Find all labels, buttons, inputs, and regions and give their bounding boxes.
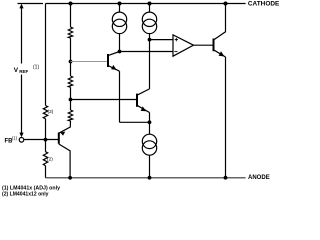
- current source I2 circles: [142, 12, 156, 34]
- node A junction (Q1 base tap): [69, 60, 73, 64]
- node junction Q3 collector / cathode rail: [224, 2, 228, 6]
- node B junction (Q2 base tap): [69, 98, 73, 102]
- node junction Q3 emitter / anode rail: [224, 176, 228, 180]
- wire node E to I3: [149, 122, 151, 134]
- VREF dimension arrowhead up: [19, 4, 23, 9]
- resistor R2: [68, 76, 72, 87]
- op-amp U1 triangle: [173, 35, 194, 56]
- node C junction (Q1 collector / inverting input): [118, 50, 122, 54]
- op-amp plus sign: [175, 38, 178, 41]
- transistor Q2 (NPN) base bar: [136, 94, 138, 107]
- transistor Q2 emitter arrowhead: [141, 106, 147, 111]
- VREF dimension arrow lower shaft: [21, 75, 23, 134]
- wire left column upper segment: [45, 4, 47, 106]
- wire op-amp output: [194, 44, 214, 46]
- terminal FB open circle: [19, 138, 24, 143]
- transistor Q4 (PNP) base bar: [58, 133, 60, 144]
- transistor Q3 (NPN output) base bar: [213, 39, 215, 52]
- wire top rail to I2: [149, 4, 151, 13]
- wire I2 to node D: [149, 33, 151, 39]
- node junction top rail / resistor column: [69, 2, 73, 6]
- wire Q2 base: [71, 99, 137, 101]
- resistor R1: [68, 27, 72, 38]
- wire emitter bus to node E: [120, 121, 150, 123]
- node junction I3 / anode rail: [148, 176, 152, 180]
- wire R2 to node B: [70, 87, 72, 110]
- wire node D to Q2 collector: [149, 40, 151, 89]
- VREF dimension arrowhead down: [19, 133, 23, 138]
- svg-text:(2): (2): [47, 157, 53, 163]
- node D junction (noninverting input / Q2 collector): [148, 38, 152, 42]
- wire I1 to node C: [119, 33, 121, 51]
- current source I3 circles: [142, 134, 156, 155]
- wire Q2 emitter down to node E: [149, 113, 151, 123]
- wire R3 to Q4 emitter: [59, 121, 71, 133]
- wire top rail to I1: [119, 4, 121, 13]
- svg-text:(1): (1): [12, 135, 18, 140]
- wire R1 to node A: [70, 38, 72, 76]
- svg-text:(1): (1): [33, 65, 39, 71]
- svg-text:V: V: [14, 67, 19, 74]
- wire Q1 base (gray): [71, 61, 108, 63]
- wire resistor column top: [70, 4, 72, 28]
- wire left column mid segment: [45, 119, 47, 152]
- resistor R4 (2) upper left: [43, 106, 47, 119]
- svg-text:REF: REF: [19, 69, 28, 74]
- current source I1 circles: [112, 12, 126, 34]
- wire Q3 emitter to anode rail: [225, 57, 227, 178]
- wire FB line: [24, 139, 59, 141]
- node junction Q4 collector / anode rail: [68, 176, 72, 180]
- transistor Q3 collector: [214, 4, 226, 41]
- wire op-amp noninverting input (from node D): [150, 39, 174, 41]
- VREF dimension arrow upper shaft: [21, 7, 23, 64]
- transistor Q2 collector: [137, 89, 150, 95]
- node junction top rail / I2: [148, 2, 152, 6]
- wire Q1 emitter down: [119, 71, 121, 122]
- wire bottom rail (anode rail): [46, 177, 246, 179]
- transistor Q4 emitter arrowhead (points to base): [60, 132, 65, 136]
- svg-text:CATHODE: CATHODE: [248, 0, 280, 7]
- wire top rail left stub: [18, 3, 44, 5]
- node junction top rail / I1: [118, 2, 122, 6]
- svg-text:(2): (2): [48, 109, 54, 115]
- wire op-amp inverting input (from node C): [120, 51, 174, 53]
- transistor Q1 collector: [108, 52, 120, 56]
- transistor Q1 emitter: [108, 66, 120, 72]
- svg-text:ANODE: ANODE: [248, 174, 270, 181]
- transistor Q1 emitter arrowhead: [111, 65, 117, 70]
- resistor R5 (2) lower left: [43, 152, 47, 166]
- node E junction (emitters / I3): [148, 120, 152, 124]
- transistor Q3 emitter: [214, 50, 226, 57]
- op-amp minus sign: [174, 51, 177, 53]
- transistor Q2 emitter: [137, 105, 150, 112]
- resistor R3: [68, 110, 72, 121]
- node junction FB / left column: [44, 138, 48, 142]
- wire I3 to anode rail: [149, 155, 151, 178]
- wire top rail (cathode rail): [45, 3, 245, 5]
- wire left column bottom segment: [45, 166, 47, 178]
- transistor Q4 collector: [59, 144, 70, 178]
- transistor Q1 (NPN) base bar: [107, 54, 109, 67]
- transistor Q3 emitter arrowhead: [219, 51, 225, 56]
- svg-text:(2) LM4041x12 only: (2) LM4041x12 only: [2, 191, 49, 197]
